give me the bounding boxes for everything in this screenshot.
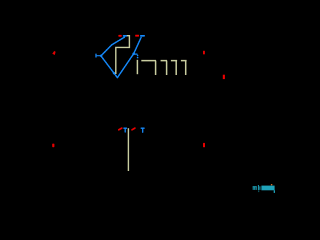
wire staircase (cathode D1 to node B) xyxy=(116,36,130,74)
node marker bottom-right (red) xyxy=(203,143,205,147)
node marker bottom-left (red) xyxy=(52,144,54,148)
probe 2 (blue) xyxy=(141,128,144,132)
diode D4 cathode bar xyxy=(141,35,144,37)
polarity mark D1 (red) xyxy=(118,35,121,37)
terminal bar right (red) xyxy=(223,75,225,79)
watermark logo block xyxy=(261,186,274,191)
wire to ground (vertical) xyxy=(127,128,129,171)
probe 1 (blue) xyxy=(124,128,127,132)
current arrow 2 (red) xyxy=(132,128,135,130)
winding L1 loop 2 xyxy=(161,61,167,75)
diode D4 body (node C up) xyxy=(134,38,141,54)
left lead wire xyxy=(97,55,101,57)
winding L1 loop 3 xyxy=(171,61,177,75)
diode D1 cathode bar xyxy=(124,35,127,37)
node marker top-left (red) xyxy=(52,51,55,55)
watermark logo dot (orange) xyxy=(271,184,272,185)
winding L1 loop 1 xyxy=(141,61,156,75)
node marker top-right (red) xyxy=(203,51,205,55)
diode D3 body (node B up to node C) xyxy=(117,54,133,78)
current arrow 1 (red) xyxy=(119,128,122,130)
node B junction xyxy=(113,72,115,74)
node C tick xyxy=(135,53,137,55)
diode D2 body (node A down to node B) xyxy=(101,56,117,77)
watermark logo text xyxy=(253,184,275,193)
node A junction xyxy=(100,55,102,57)
left terminal tick xyxy=(95,54,97,57)
node C junction xyxy=(132,53,135,56)
diode D1 body (anode A to top) xyxy=(101,37,124,55)
wire dots node C to winding xyxy=(137,55,139,57)
polarity mark D4 (red) xyxy=(135,35,139,37)
winding L1 lead wire xyxy=(136,60,138,74)
winding L1 loop 4 xyxy=(181,61,187,75)
